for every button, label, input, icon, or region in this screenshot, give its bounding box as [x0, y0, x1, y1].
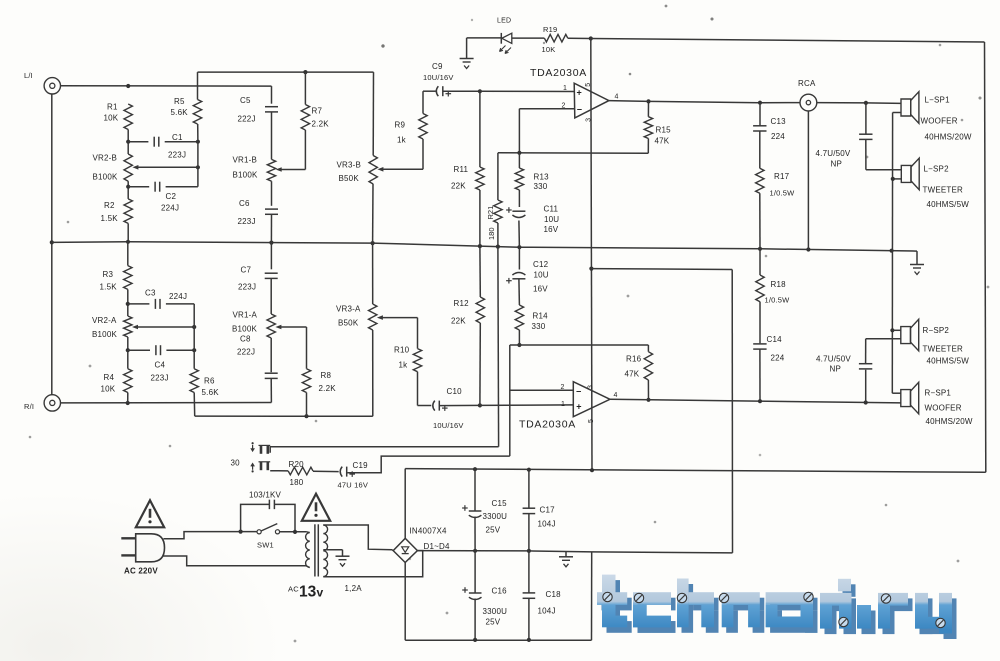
- svg-text:10U/16V: 10U/16V: [423, 73, 454, 82]
- svg-text:13: 13: [299, 584, 317, 601]
- resistor R15: [644, 101, 671, 153]
- svg-text:C12: C12: [533, 260, 549, 269]
- wire R20 to C19: [313, 470, 339, 472]
- svg-text:B100K: B100K: [232, 325, 257, 334]
- wire LED to R19: [512, 37, 545, 39]
- svg-text:2.2K: 2.2K: [319, 384, 337, 393]
- capacitor C18: [523, 551, 562, 640]
- svg-text:47K: 47K: [655, 137, 670, 146]
- svg-text:B50K: B50K: [338, 319, 359, 328]
- resistor R8: [302, 327, 336, 416]
- svg-text:C11: C11: [544, 205, 559, 214]
- wire plug top to switch: [164, 532, 257, 539]
- junction mid rail R2/R3: [126, 240, 130, 244]
- potentiometer VR2-B: [93, 154, 198, 182]
- svg-text:C3: C3: [145, 289, 156, 298]
- svg-text:224J: 224J: [169, 292, 187, 301]
- wire C5 to VR1-B: [271, 112, 273, 159]
- label C12: [533, 260, 549, 294]
- bridge rectifier D1~D4: [393, 527, 450, 563]
- connector CN 30: [231, 442, 271, 472]
- svg-text:10U: 10U: [544, 215, 559, 224]
- svg-text:R14: R14: [533, 312, 549, 321]
- capacitor C-L 4.7U/50V NP: [816, 103, 902, 170]
- svg-text:2.2K: 2.2K: [312, 120, 330, 129]
- wire C6 to rail: [270, 214, 272, 242]
- svg-text:224J: 224J: [161, 204, 179, 213]
- svg-text:LED: LED: [497, 18, 511, 25]
- resistor R10: [394, 318, 422, 406]
- capacitor C12: [506, 247, 525, 305]
- wire PSU bottom line: [405, 639, 591, 641]
- svg-text:R13: R13: [534, 173, 550, 182]
- svg-text:R7: R7: [312, 107, 323, 116]
- svg-text:AC: AC: [288, 585, 299, 594]
- svg-text:330: 330: [532, 322, 546, 331]
- svg-text:22K: 22K: [451, 317, 466, 326]
- svg-text:TDA2030A: TDA2030A: [530, 67, 587, 79]
- resistor R20: [288, 460, 313, 487]
- wire R output: [610, 399, 901, 403]
- junction R15 top: [646, 99, 650, 103]
- svg-text:VR3-A: VR3-A: [336, 305, 361, 314]
- wire bridge left: [392, 549, 393, 552]
- wire PSU mid rail: [417, 551, 732, 553]
- resistor R7: [301, 72, 329, 169]
- wire top rail to right corner: [591, 39, 985, 43]
- svg-text:C18: C18: [546, 590, 562, 599]
- svg-text:C14: C14: [767, 335, 783, 344]
- junction mid rail C6/C7: [269, 241, 273, 245]
- svg-text:L−SP1: L−SP1: [925, 96, 951, 105]
- junction snubber right: [293, 530, 297, 534]
- junction PSU bottom C18: [527, 638, 531, 642]
- junction VR2-B wiper right: [196, 165, 200, 169]
- svg-text:R11: R11: [454, 165, 469, 174]
- svg-text:R17: R17: [774, 172, 790, 181]
- capacitor C11: [506, 190, 559, 247]
- wire pin2 drop: [518, 109, 520, 153]
- svg-text:TWEETER: TWEETER: [923, 345, 964, 354]
- svg-text:−: −: [576, 387, 581, 397]
- ground (PSU mid): [559, 551, 573, 567]
- svg-text:R−SP1: R−SP1: [925, 389, 952, 398]
- svg-text:1: 1: [563, 85, 567, 92]
- junction jack ground to mid rail: [50, 240, 54, 244]
- capacitor C5: [238, 96, 279, 124]
- svg-text:R3: R3: [103, 270, 114, 279]
- wire L output: [609, 101, 800, 103]
- resistor R18: [756, 249, 790, 343]
- resistor R19: [542, 25, 568, 54]
- svg-text:L−SP2: L−SP2: [924, 165, 950, 174]
- svg-text:10K: 10K: [542, 45, 556, 54]
- junction mid rail C11/C12: [517, 245, 521, 249]
- svg-text:B100K: B100K: [92, 330, 117, 339]
- svg-text:30: 30: [231, 459, 241, 468]
- svg-text:1/0.5W: 1/0.5W: [770, 189, 796, 198]
- junction C1 right: [196, 140, 200, 144]
- svg-text:VR1-B: VR1-B: [233, 156, 258, 165]
- svg-text:R10: R10: [394, 346, 410, 355]
- wire supply branch right: [591, 268, 732, 271]
- junction C4 right: [192, 348, 196, 352]
- ground (transformer tap): [336, 550, 350, 567]
- svg-text:180: 180: [290, 478, 304, 487]
- svg-text:5.6K: 5.6K: [202, 388, 220, 397]
- svg-text:4: 4: [614, 392, 618, 399]
- svg-text:TDA2030A: TDA2030A: [519, 419, 576, 431]
- junction L tweeter cap node: [864, 101, 868, 105]
- speaker R-SP1: [892, 382, 973, 426]
- junction supply branch: [589, 267, 593, 271]
- svg-text:−: −: [577, 105, 582, 115]
- capacitor C-snubber 103/1KV: [241, 491, 295, 532]
- svg-text:25V: 25V: [486, 618, 501, 627]
- svg-text:AC 220V: AC 220V: [124, 567, 158, 576]
- wire pin2 upper: [519, 103, 574, 110]
- svg-text:4.7U/50V: 4.7U/50V: [816, 355, 851, 364]
- svg-text:C9: C9: [432, 62, 443, 71]
- junction snubber left: [239, 530, 243, 534]
- junction L input R1: [126, 84, 130, 88]
- junction R16 bottom: [646, 398, 650, 402]
- wire PSU top line: [405, 469, 986, 473]
- transformer T1 secondary: [323, 525, 327, 577]
- svg-text:4.7U/50V: 4.7U/50V: [816, 149, 851, 158]
- svg-text:B100K: B100K: [93, 173, 118, 182]
- resistor R5: [171, 72, 202, 142]
- junction mid rail RCA ground: [806, 247, 810, 251]
- junction C10 pin1 node: [478, 403, 482, 407]
- svg-text:WOOFER: WOOFER: [925, 404, 962, 413]
- wire VR2-A to C4 node: [127, 337, 129, 369]
- svg-text:B50K: B50K: [339, 174, 360, 183]
- wire connector lower to R20: [270, 470, 288, 472]
- wire RCA to L-SP1: [817, 102, 901, 105]
- svg-text:10K: 10K: [101, 385, 116, 394]
- svg-text:1.5K: 1.5K: [100, 283, 118, 292]
- potentiometer VR2-A: [92, 316, 194, 339]
- junction C9 pin1 node: [478, 89, 482, 93]
- potentiometer VR1-A: [232, 311, 307, 339]
- junction lower return R8: [304, 414, 308, 418]
- junction node C3: [126, 302, 130, 306]
- svg-text:47K: 47K: [625, 370, 640, 379]
- wire pin1 upper: [480, 85, 574, 92]
- wire RCA ground: [807, 111, 809, 250]
- svg-text:R4: R4: [104, 373, 115, 382]
- wire supply vertical: [591, 39, 592, 471]
- wire C7 to VR1-A: [270, 278, 272, 314]
- svg-text:R2: R2: [104, 201, 115, 210]
- label C14: [767, 335, 785, 363]
- svg-text:WOOFER: WOOFER: [921, 117, 958, 126]
- junction node C1: [126, 140, 130, 144]
- junction PSU top C17: [527, 468, 531, 472]
- wire right border vertical: [985, 42, 986, 472]
- junction R input R4: [126, 401, 130, 405]
- svg-text:224: 224: [771, 132, 785, 141]
- junction mid rail R17/R18: [758, 247, 762, 251]
- svg-text:TWEETER: TWEETER: [923, 186, 964, 195]
- mains plug AC 220V: [121, 534, 164, 576]
- svg-text:+: +: [576, 402, 581, 412]
- svg-text:222J: 222J: [237, 348, 255, 357]
- resistor R9: [395, 91, 436, 169]
- resistor R4: [101, 369, 133, 403]
- svg-text:1k: 1k: [399, 361, 409, 370]
- svg-text:104J: 104J: [538, 520, 556, 529]
- speaker L-SP1: [893, 92, 972, 142]
- wire pin2 net vertical: [509, 345, 511, 456]
- svg-text:NP: NP: [830, 365, 842, 374]
- capacitor C8: [237, 335, 278, 379]
- svg-text:R1: R1: [107, 103, 118, 112]
- resistor R2: [101, 199, 133, 224]
- svg-text:1k: 1k: [397, 136, 407, 145]
- svg-text:L/I: L/I: [24, 71, 33, 80]
- wire switch to transformer: [280, 531, 306, 533]
- svg-text:C6: C6: [239, 199, 250, 208]
- wire branch down: [731, 270, 733, 553]
- capacitor C7: [238, 243, 278, 292]
- junction PSU mid C15: [473, 549, 477, 553]
- svg-text:NP: NP: [831, 160, 843, 169]
- svg-text:R5: R5: [174, 97, 185, 106]
- svg-text:+: +: [577, 87, 582, 97]
- svg-text:10K: 10K: [104, 114, 119, 123]
- svg-text:1.5K: 1.5K: [101, 214, 119, 223]
- warning triangle (mains): [136, 500, 164, 527]
- junction mid rail R11/R12: [478, 244, 482, 248]
- svg-text:10U/16V: 10U/16V: [433, 421, 464, 430]
- svg-text:R12: R12: [454, 299, 470, 308]
- svg-text:222J: 222J: [238, 115, 256, 124]
- wire C8 to R input: [270, 378, 272, 402]
- svg-text:R21: R21: [486, 206, 495, 220]
- svg-text:C17: C17: [540, 506, 556, 515]
- capacitor C1: [128, 133, 198, 160]
- junction top sub-line R7: [303, 70, 307, 74]
- wire R14 node to R16: [510, 344, 649, 346]
- input jack L/I: [24, 71, 61, 94]
- wire secondary center tap: [323, 549, 342, 551]
- capacitor C6: [238, 199, 279, 226]
- svg-text:C16: C16: [492, 587, 508, 596]
- wire R21 below rail: [497, 247, 500, 447]
- svg-text:3300U: 3300U: [483, 607, 508, 616]
- svg-text:1: 1: [561, 401, 565, 408]
- wire L input: [61, 85, 272, 87]
- resistor R3: [124, 242, 132, 316]
- svg-text:C15: C15: [492, 499, 508, 508]
- resistor R13: [515, 153, 549, 191]
- wire PSU right vertical: [591, 552, 593, 640]
- wire feedback upper: [498, 152, 648, 155]
- svg-text:1,2A: 1,2A: [345, 584, 363, 593]
- capacitor C9: [423, 62, 480, 97]
- svg-text:v: v: [317, 586, 324, 600]
- svg-text:C19: C19: [353, 461, 369, 470]
- jack RCA: [798, 79, 817, 111]
- potentiometer VR3-B: [337, 72, 424, 243]
- junction C13 node: [758, 101, 762, 105]
- svg-text:R−SP2: R−SP2: [923, 326, 950, 335]
- capacitor C17: [523, 470, 556, 551]
- speaker L-SP2: [893, 158, 969, 209]
- wire pin2 net to C19: [347, 456, 510, 473]
- svg-text:VR2-B: VR2-B: [93, 154, 118, 163]
- svg-text:R19: R19: [543, 25, 557, 34]
- svg-text:103/1KV: 103/1KV: [249, 491, 282, 500]
- svg-text:C8: C8: [240, 335, 251, 344]
- resistor R14: [515, 305, 548, 345]
- capacitor C15: [462, 469, 507, 551]
- svg-text:VR3-B: VR3-B: [337, 161, 362, 170]
- svg-text:R/I: R/I: [24, 402, 34, 411]
- wire speaker return: [891, 113, 893, 394]
- svg-text:C7: C7: [241, 266, 252, 275]
- capacitor C16: [462, 551, 507, 640]
- op-amp U2 TDA2030A: [519, 382, 618, 431]
- svg-text:40HMS/20W: 40HMS/20W: [925, 133, 972, 142]
- svg-text:R9: R9: [395, 121, 406, 130]
- svg-text:104J: 104J: [538, 607, 556, 616]
- resistor R21: [486, 153, 502, 247]
- svg-text:40HMS/5W: 40HMS/5W: [927, 357, 970, 366]
- watermark logo tehnari.ru: [597, 575, 957, 639]
- svg-text:R6: R6: [204, 377, 215, 386]
- svg-text:16V: 16V: [533, 285, 548, 294]
- svg-text:3300U: 3300U: [483, 512, 508, 521]
- junction feedback pin2: [517, 151, 521, 155]
- wire C5 drop: [271, 86, 273, 104]
- junction PSU top supply: [590, 468, 594, 472]
- svg-text:47U 16V: 47U 16V: [338, 481, 369, 490]
- wire secondary bottom: [323, 551, 422, 577]
- resistor R16: [625, 345, 653, 400]
- wire VR1-A to C8: [270, 338, 272, 372]
- svg-text:5.6K: 5.6K: [171, 108, 189, 117]
- junction PSU bottom C16: [473, 638, 477, 642]
- svg-text:330: 330: [534, 182, 548, 191]
- svg-text:C2: C2: [166, 192, 177, 201]
- svg-text:R18: R18: [771, 280, 787, 289]
- wire PSU left vertical: [404, 469, 406, 641]
- svg-text:16V: 16V: [544, 225, 559, 234]
- svg-text:2: 2: [561, 384, 565, 391]
- svg-text:40HMS/20W: 40HMS/20W: [926, 417, 973, 426]
- svg-text:224: 224: [771, 354, 785, 363]
- svg-text:VR1-A: VR1-A: [233, 311, 258, 320]
- wire VR1-B to C6: [271, 181, 273, 206]
- svg-text:223J: 223J: [238, 283, 256, 292]
- svg-text:180: 180: [487, 227, 496, 240]
- capacitor C14: [753, 344, 766, 401]
- wire plug bottom to transformer: [164, 556, 307, 566]
- svg-text:R15: R15: [656, 126, 672, 135]
- svg-text:1/0.5W: 1/0.5W: [765, 296, 791, 305]
- junction R output C14: [758, 399, 762, 403]
- capacitor C3: [128, 289, 194, 309]
- svg-text:SW1: SW1: [257, 541, 274, 550]
- resistor R11: [451, 91, 484, 246]
- svg-text:R16: R16: [626, 355, 642, 364]
- svg-text:40HMS/5W: 40HMS/5W: [927, 200, 970, 209]
- svg-text:223J: 223J: [151, 374, 169, 383]
- junction return L-SP2: [891, 177, 895, 181]
- wire top sub-line: [198, 71, 374, 73]
- wire pin2 lower: [510, 384, 574, 391]
- junction node C2: [126, 185, 130, 189]
- warning triangle (transformer): [302, 494, 330, 521]
- wire pin1 lower: [480, 401, 573, 408]
- svg-text:C5: C5: [240, 96, 251, 105]
- svg-text:22K: 22K: [451, 182, 466, 191]
- capacitor C4: [128, 345, 194, 382]
- wire lower return: [195, 415, 373, 417]
- resistor R12: [451, 247, 485, 406]
- LED: [497, 18, 512, 54]
- wire R19 to supply node: [568, 37, 591, 39]
- junction mid rail VR3: [371, 241, 375, 245]
- junction node C4: [126, 348, 130, 352]
- svg-text:C13: C13: [771, 117, 787, 126]
- svg-text:25V: 25V: [486, 526, 501, 535]
- potentiometer VR3-A: [336, 243, 418, 416]
- wire LED anode: [467, 37, 501, 39]
- resistor R6: [190, 304, 219, 416]
- svg-text:223J: 223J: [168, 151, 186, 160]
- op-amp U1 TDA2030A: [530, 67, 619, 122]
- ground (LED return): [460, 38, 474, 69]
- junction PSU mid C17: [527, 549, 531, 553]
- svg-text:IN4007X4: IN4007X4: [410, 527, 448, 536]
- junction mid rail speaker return: [890, 249, 894, 253]
- svg-text:4: 4: [615, 94, 619, 101]
- capacitor C-R 4.7U/50V NP: [816, 339, 901, 403]
- svg-text:3: 3: [587, 385, 594, 389]
- wire R5 line C1-C2: [197, 142, 199, 187]
- wire R21 net bottom: [270, 447, 498, 453]
- junction R14 bottom: [517, 343, 521, 347]
- wire R1 to C1 node: [127, 130, 129, 155]
- svg-text:10U: 10U: [534, 271, 549, 280]
- svg-text:2: 2: [562, 103, 566, 110]
- junction mid rail R21: [496, 245, 500, 249]
- svg-text:R8: R8: [321, 371, 332, 380]
- wire R input: [61, 402, 272, 404]
- label R3: [100, 270, 118, 292]
- svg-text:C4: C4: [155, 361, 166, 370]
- capacitor C19: [338, 461, 369, 490]
- wire mid rail: [52, 242, 917, 251]
- switch SW1: [257, 524, 280, 550]
- junction R tweeter cap node: [864, 400, 868, 404]
- node supply top: [589, 36, 593, 40]
- wire jack sleeve vertical: [51, 94, 53, 395]
- junction PSU top C15: [473, 467, 477, 471]
- svg-text:223J: 223J: [238, 217, 256, 226]
- speaker R-SP2: [892, 319, 969, 365]
- label transformer ratings: [288, 584, 362, 601]
- transformer T1 primary: [306, 532, 310, 568]
- svg-text:5: 5: [588, 419, 595, 423]
- input jack R/I: [24, 395, 61, 411]
- svg-text:RCA: RCA: [798, 79, 816, 88]
- svg-text:B100K: B100K: [233, 171, 258, 180]
